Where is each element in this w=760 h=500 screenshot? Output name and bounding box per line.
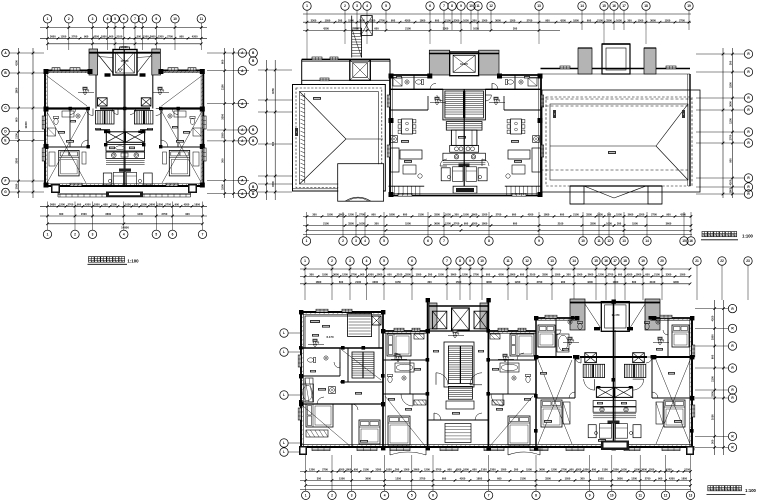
svg-text:11: 11 (200, 17, 204, 21)
svg-text:300: 300 (137, 35, 142, 39)
svg-text:2100: 2100 (397, 273, 403, 277)
svg-text:L: L (283, 350, 285, 354)
svg-text:2100: 2100 (558, 222, 564, 226)
svg-text:600: 600 (497, 477, 502, 481)
svg-text:600: 600 (354, 468, 359, 472)
svg-text:1050: 1050 (463, 18, 469, 22)
svg-text:1050: 1050 (125, 203, 131, 207)
svg-text:3600: 3600 (729, 101, 733, 107)
svg-text:1500: 1500 (616, 213, 622, 217)
svg-text:4200: 4200 (472, 222, 478, 226)
svg-text:14: 14 (580, 4, 584, 8)
svg-text:4200: 4200 (85, 203, 91, 207)
svg-text:1: 1 (306, 4, 308, 8)
svg-text:1200: 1200 (510, 18, 516, 22)
svg-text:12: 12 (525, 259, 529, 263)
svg-text:1500: 1500 (322, 273, 328, 277)
svg-text:13: 13 (537, 4, 541, 8)
svg-text:300: 300 (374, 222, 379, 226)
svg-text:11: 11 (476, 4, 480, 8)
svg-text:9: 9 (589, 494, 591, 498)
svg-text:3300: 3300 (711, 391, 715, 397)
svg-text:3600: 3600 (495, 18, 501, 22)
svg-text:600: 600 (645, 273, 650, 277)
svg-text:1200: 1200 (157, 203, 163, 207)
svg-text:4200: 4200 (587, 280, 593, 284)
svg-text:900: 900 (179, 35, 184, 39)
svg-text:1500: 1500 (638, 18, 644, 22)
svg-text:3600: 3600 (333, 273, 339, 277)
svg-text:1200: 1200 (137, 212, 143, 216)
svg-text:3300: 3300 (15, 157, 19, 163)
svg-text:2700: 2700 (351, 273, 357, 277)
svg-text:L: L (283, 393, 285, 397)
svg-text:3600: 3600 (434, 222, 440, 226)
svg-text:3600: 3600 (472, 213, 478, 217)
svg-text:19: 19 (687, 4, 691, 8)
svg-text:1500: 1500 (456, 280, 462, 284)
svg-text:4200: 4200 (669, 477, 675, 481)
svg-text:4: 4 (123, 233, 125, 237)
svg-text:17: 17 (622, 4, 626, 8)
svg-text:300: 300 (580, 477, 585, 481)
svg-text:3300: 3300 (545, 477, 551, 481)
svg-text:3300: 3300 (443, 27, 449, 31)
svg-text:1050: 1050 (555, 273, 561, 277)
svg-text:900: 900 (658, 477, 663, 481)
svg-text:1800: 1800 (510, 273, 516, 277)
svg-text:600: 600 (520, 273, 525, 277)
svg-text:20: 20 (660, 259, 664, 263)
svg-text:2100: 2100 (117, 35, 123, 39)
svg-text:2100: 2100 (711, 376, 715, 382)
svg-text:15: 15 (594, 259, 598, 263)
svg-text:2700: 2700 (420, 477, 426, 481)
svg-text:3600: 3600 (641, 468, 647, 472)
svg-text:3600: 3600 (339, 213, 345, 217)
svg-text:1050: 1050 (565, 477, 571, 481)
svg-text:23: 23 (746, 259, 750, 263)
svg-text:L: L (283, 331, 285, 335)
svg-text:3600: 3600 (365, 477, 371, 481)
svg-text:1050: 1050 (501, 468, 507, 472)
svg-text:2: 2 (68, 17, 70, 21)
svg-text:2700: 2700 (645, 477, 651, 481)
svg-text:300: 300 (513, 27, 518, 31)
svg-text:3300: 3300 (613, 468, 619, 472)
svg-text:1200: 1200 (395, 477, 401, 481)
svg-text:1050: 1050 (621, 468, 627, 472)
svg-text:6: 6 (172, 233, 174, 237)
svg-text:7: 7 (134, 17, 136, 21)
svg-text:2100: 2100 (323, 222, 329, 226)
svg-text:4200: 4200 (729, 179, 733, 185)
svg-text:300: 300 (59, 212, 64, 216)
svg-text:14: 14 (645, 239, 649, 243)
svg-text:3600: 3600 (628, 213, 634, 217)
svg-text:2700: 2700 (165, 203, 171, 207)
svg-text:1500: 1500 (634, 468, 640, 472)
svg-text:1800: 1800 (476, 477, 482, 481)
svg-text:4: 4 (366, 259, 368, 263)
svg-text:1500: 1500 (598, 477, 604, 481)
svg-text:6: 6 (432, 494, 434, 498)
svg-text:11300: 11300 (24, 121, 28, 129)
svg-text:300: 300 (607, 213, 612, 217)
svg-text:16: 16 (612, 4, 616, 8)
svg-text:900: 900 (464, 222, 469, 226)
svg-text:3600: 3600 (539, 468, 545, 472)
svg-text:4: 4 (107, 17, 109, 21)
svg-text:3300: 3300 (586, 213, 592, 217)
svg-text:21: 21 (695, 259, 699, 263)
svg-text:3600: 3600 (50, 203, 56, 207)
svg-text:300: 300 (566, 273, 571, 277)
svg-text:3300: 3300 (434, 213, 440, 217)
svg-text:900: 900 (84, 35, 89, 39)
svg-text:300: 300 (395, 468, 400, 472)
svg-text:1500: 1500 (438, 273, 444, 277)
svg-text:1050: 1050 (386, 468, 392, 472)
svg-text:10: 10 (469, 4, 473, 8)
svg-text:19: 19 (641, 259, 645, 263)
svg-text:1200: 1200 (598, 273, 604, 277)
svg-text:3300: 3300 (542, 273, 548, 277)
svg-text:22: 22 (720, 259, 724, 263)
svg-text:900: 900 (442, 477, 447, 481)
svg-text:2700: 2700 (608, 273, 614, 277)
svg-text:2700: 2700 (359, 213, 365, 217)
svg-text:5: 5 (114, 17, 116, 21)
svg-text:4200: 4200 (368, 273, 374, 277)
svg-text:300: 300 (427, 280, 432, 284)
svg-text:1050: 1050 (271, 88, 275, 94)
svg-text:3600: 3600 (666, 222, 672, 226)
svg-text:7: 7 (443, 239, 445, 243)
svg-text:8: 8 (535, 494, 537, 498)
svg-text:4200: 4200 (323, 27, 329, 31)
svg-text:16: 16 (689, 239, 693, 243)
svg-text:3300: 3300 (405, 273, 411, 277)
svg-text:300: 300 (472, 18, 477, 22)
svg-text:2700: 2700 (454, 222, 460, 226)
svg-text:1050: 1050 (221, 132, 225, 138)
svg-text:4200: 4200 (460, 477, 466, 481)
svg-text:11: 11 (639, 494, 643, 498)
svg-text:19.170: 19.170 (460, 63, 468, 66)
svg-text:900: 900 (77, 203, 82, 207)
svg-text:14800: 14800 (121, 225, 129, 229)
svg-text:3300: 3300 (606, 18, 612, 22)
svg-text:3600: 3600 (451, 273, 457, 277)
svg-text:6.170: 6.170 (327, 335, 334, 339)
svg-text:2100: 2100 (15, 133, 19, 139)
svg-text:4200: 4200 (15, 60, 19, 66)
svg-text:2100: 2100 (597, 18, 603, 22)
svg-text:600: 600 (472, 468, 477, 472)
svg-text:1:100: 1:100 (127, 258, 139, 263)
svg-text:3: 3 (349, 259, 351, 263)
svg-text:2100: 2100 (602, 468, 608, 472)
svg-text:1050: 1050 (606, 222, 612, 226)
svg-text:11: 11 (597, 239, 601, 243)
svg-text:2100: 2100 (520, 477, 526, 481)
svg-text:6: 6 (411, 259, 413, 263)
svg-text:1050: 1050 (680, 273, 686, 277)
svg-text:600: 600 (513, 222, 518, 226)
svg-text:600: 600 (387, 273, 392, 277)
svg-text:8: 8 (451, 4, 453, 8)
svg-text:2100: 2100 (355, 280, 361, 284)
svg-text:1800: 1800 (544, 213, 550, 217)
svg-text:1800: 1800 (420, 18, 426, 22)
svg-text:300: 300 (221, 158, 225, 163)
svg-text:300: 300 (317, 477, 322, 481)
svg-text:2700: 2700 (473, 273, 479, 277)
svg-text:1800: 1800 (711, 334, 715, 340)
svg-text:4200: 4200 (456, 468, 462, 472)
svg-text:1800: 1800 (482, 222, 488, 226)
svg-text:2700: 2700 (436, 468, 442, 472)
svg-text:13: 13 (622, 239, 626, 243)
svg-text:300: 300 (617, 222, 622, 226)
svg-text:1: 1 (306, 239, 308, 243)
svg-text:1200: 1200 (551, 468, 557, 472)
svg-text:2700: 2700 (167, 35, 173, 39)
svg-text:600: 600 (374, 27, 379, 31)
svg-text:1200: 1200 (665, 18, 671, 22)
svg-text:2100: 2100 (650, 280, 656, 284)
svg-text:900: 900 (447, 468, 452, 472)
svg-text:9: 9 (538, 239, 540, 243)
svg-text:1800: 1800 (729, 187, 733, 193)
svg-text:600: 600 (435, 18, 440, 22)
svg-text:4200: 4200 (711, 315, 715, 321)
svg-text:300: 300 (729, 60, 733, 65)
svg-text:1:100: 1:100 (745, 488, 756, 493)
svg-text:2100: 2100 (481, 468, 487, 472)
svg-text:3600: 3600 (149, 203, 155, 207)
svg-text:600: 600 (339, 280, 344, 284)
svg-text:2: 2 (342, 239, 344, 243)
svg-text:900: 900 (618, 273, 623, 277)
svg-text:2100: 2100 (445, 18, 451, 22)
svg-text:1500: 1500 (526, 468, 532, 472)
svg-text:9: 9 (155, 17, 157, 21)
svg-text:1500: 1500 (577, 273, 583, 277)
svg-text:15: 15 (682, 239, 686, 243)
svg-text:900: 900 (569, 468, 574, 472)
svg-text:1500: 1500 (463, 213, 469, 217)
svg-text:2700: 2700 (379, 18, 385, 22)
svg-text:1800: 1800 (353, 27, 359, 31)
svg-text:1500: 1500 (339, 477, 345, 481)
svg-text:600: 600 (221, 59, 225, 64)
svg-text:1: 1 (47, 233, 49, 237)
svg-text:1200: 1200 (309, 468, 315, 472)
svg-text:1200: 1200 (348, 213, 354, 217)
svg-text:1200: 1200 (631, 477, 637, 481)
svg-text:18: 18 (644, 4, 648, 8)
svg-text:1800: 1800 (636, 273, 642, 277)
svg-text:1200: 1200 (59, 203, 65, 207)
svg-text:2100: 2100 (418, 213, 424, 217)
svg-text:3: 3 (355, 239, 357, 243)
svg-text:2700: 2700 (561, 468, 567, 472)
svg-text:300: 300 (271, 141, 275, 146)
svg-text:4200: 4200 (576, 468, 582, 472)
svg-text:1: 1 (304, 259, 306, 263)
svg-text:600: 600 (103, 203, 108, 207)
svg-text:1800: 1800 (94, 203, 100, 207)
svg-text:1500: 1500 (81, 212, 87, 216)
svg-text:4200: 4200 (528, 213, 534, 217)
svg-text:1050: 1050 (445, 213, 451, 217)
svg-text:2700: 2700 (651, 213, 657, 217)
svg-text:1800: 1800 (316, 280, 322, 284)
svg-text:13: 13 (689, 494, 693, 498)
svg-text:5: 5 (411, 494, 413, 498)
svg-text:1800: 1800 (613, 280, 619, 284)
svg-text:4200: 4200 (339, 468, 345, 472)
svg-text:3600: 3600 (50, 35, 56, 39)
svg-text:3300: 3300 (375, 468, 381, 472)
svg-text:300: 300 (338, 18, 343, 22)
svg-text:9: 9 (469, 259, 471, 263)
svg-text:3300: 3300 (490, 468, 496, 472)
svg-text:1500: 1500 (221, 184, 225, 190)
svg-text:6: 6 (427, 239, 429, 243)
svg-text:3600: 3600 (617, 477, 623, 481)
svg-text:L: L (283, 441, 285, 445)
svg-text:15: 15 (602, 4, 606, 8)
svg-text:1050: 1050 (616, 18, 622, 22)
svg-text:4200: 4200 (680, 213, 686, 217)
svg-text:2100: 2100 (654, 273, 660, 277)
svg-text:300: 300 (627, 18, 632, 22)
svg-text:11: 11 (506, 259, 510, 263)
svg-text:14: 14 (572, 259, 576, 263)
svg-text:10: 10 (173, 17, 177, 21)
svg-text:E: E (4, 139, 6, 143)
svg-text:L: L (283, 450, 285, 454)
svg-text:3300: 3300 (673, 280, 679, 284)
svg-text:7: 7 (446, 259, 448, 263)
svg-text:17: 17 (613, 259, 617, 263)
svg-text:2100: 2100 (111, 203, 117, 207)
svg-text:300: 300 (454, 213, 459, 217)
svg-text:1500: 1500 (405, 222, 411, 226)
svg-text:900: 900 (175, 203, 180, 207)
svg-text:300: 300 (711, 439, 715, 444)
svg-text:3600: 3600 (650, 18, 656, 22)
svg-text:13: 13 (550, 259, 554, 263)
svg-text:1050: 1050 (711, 414, 715, 420)
svg-text:2: 2 (331, 259, 333, 263)
svg-text:5: 5 (155, 233, 157, 237)
svg-text:1800: 1800 (573, 18, 579, 22)
svg-text:900: 900 (512, 213, 517, 217)
svg-text:4: 4 (384, 494, 386, 498)
svg-text:300: 300 (134, 203, 139, 207)
svg-text:1200: 1200 (639, 213, 645, 217)
svg-text:1800: 1800 (377, 273, 383, 277)
svg-text:600: 600 (15, 117, 19, 122)
svg-text:8: 8 (488, 239, 490, 243)
svg-text:8: 8 (459, 259, 461, 263)
svg-text:3300: 3300 (590, 222, 596, 226)
svg-text:3: 3 (351, 494, 353, 498)
svg-text:1500: 1500 (327, 213, 333, 217)
svg-text:7: 7 (202, 233, 204, 237)
svg-text:1500: 1500 (143, 35, 149, 39)
svg-text:1500: 1500 (632, 222, 638, 226)
svg-text:300: 300 (514, 468, 519, 472)
svg-text:300: 300 (309, 273, 314, 277)
svg-text:12: 12 (489, 4, 493, 8)
svg-text:1200: 1200 (729, 118, 733, 124)
svg-text:18: 18 (623, 259, 627, 263)
svg-text:4200: 4200 (627, 273, 633, 277)
svg-text:F: F (5, 179, 7, 183)
svg-text:1800: 1800 (346, 468, 352, 472)
svg-text:1050: 1050 (325, 18, 331, 22)
svg-text:900: 900 (391, 18, 396, 22)
svg-text:1200: 1200 (482, 213, 488, 217)
svg-text:5: 5 (383, 259, 385, 263)
svg-text:4200: 4200 (666, 468, 672, 472)
svg-text:1050: 1050 (15, 183, 19, 189)
svg-text:2: 2 (74, 233, 76, 237)
svg-text:1800: 1800 (389, 213, 395, 217)
svg-text:1500: 1500 (729, 82, 733, 88)
svg-text:1500: 1500 (348, 18, 354, 22)
svg-text:600: 600 (632, 280, 637, 284)
svg-text:4200: 4200 (93, 35, 99, 39)
svg-text:2700: 2700 (68, 203, 74, 207)
svg-text:4200: 4200 (184, 203, 190, 207)
svg-text:600: 600 (592, 468, 597, 472)
svg-text:900: 900 (486, 273, 491, 277)
svg-text:3600: 3600 (588, 273, 594, 277)
svg-text:3: 3 (356, 4, 358, 8)
svg-text:600: 600 (711, 354, 715, 359)
svg-text:4200: 4200 (560, 18, 566, 22)
svg-text:3300: 3300 (348, 222, 354, 226)
svg-text:1800: 1800 (101, 35, 107, 39)
svg-text:1050: 1050 (416, 273, 422, 277)
svg-text:2100: 2100 (684, 468, 690, 472)
svg-text:1500: 1500 (141, 203, 147, 207)
svg-text:2: 2 (331, 494, 333, 498)
svg-text:10: 10 (610, 494, 614, 498)
svg-text:300: 300 (312, 213, 317, 217)
svg-text:600: 600 (109, 35, 114, 39)
svg-text:300: 300 (428, 273, 433, 277)
svg-text:2700: 2700 (496, 213, 502, 217)
svg-text:1800: 1800 (463, 468, 469, 472)
svg-text:1050: 1050 (359, 222, 365, 226)
svg-text:2700: 2700 (729, 134, 733, 140)
svg-text:6: 6 (123, 17, 125, 21)
svg-text:900: 900 (545, 18, 550, 22)
svg-text:4200: 4200 (192, 35, 198, 39)
svg-text:1050: 1050 (395, 280, 401, 284)
svg-text:3300: 3300 (372, 280, 378, 284)
svg-text:4: 4 (366, 4, 368, 8)
svg-text:2100: 2100 (530, 273, 536, 277)
svg-text:3600: 3600 (105, 212, 111, 216)
